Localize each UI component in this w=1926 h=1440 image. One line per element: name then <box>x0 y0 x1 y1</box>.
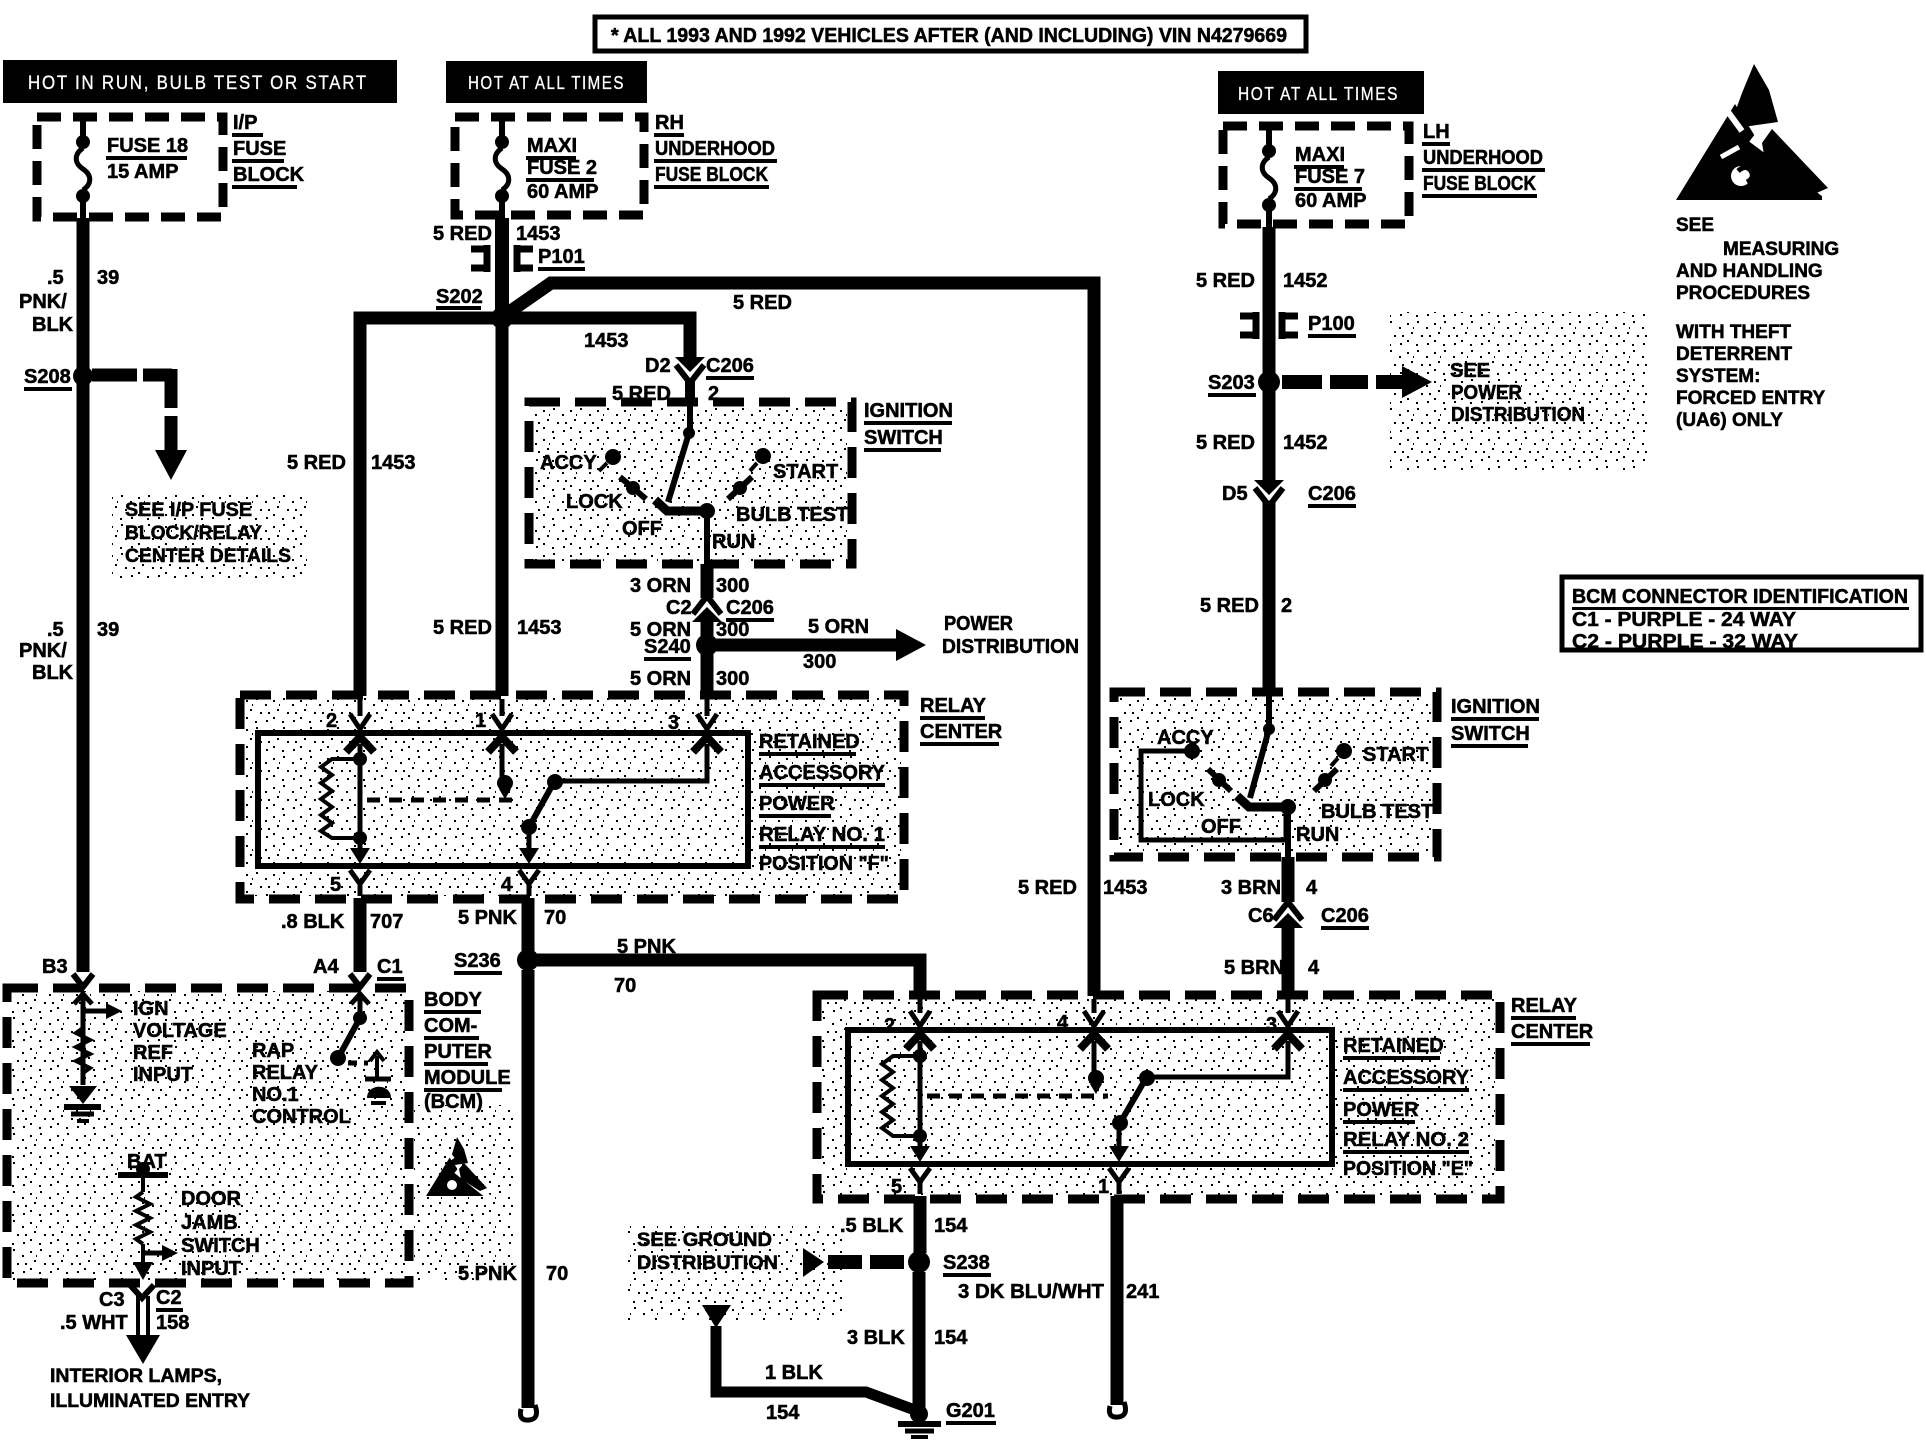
wire: S202 left branch to relay 1 pin 2 (5 RED 1453) <box>360 318 502 696</box>
svg-text:S238: S238 <box>943 1252 990 1274</box>
wire: S203 dashed arrow to power distribution <box>1282 366 1432 398</box>
label: .5 PNK/BLK 39 (upper) <box>19 267 119 336</box>
svg-text:5 ORN: 5 ORN <box>808 616 869 638</box>
svg-text:RELAY: RELAY <box>252 1062 319 1084</box>
resistor (IGN voltage ref) <box>76 1028 90 1073</box>
svg-text:300: 300 <box>716 575 749 597</box>
diode to ground (BCM ign ref) <box>64 1086 101 1121</box>
note: POWER DISTRIBUTION (at S240) <box>942 613 1079 658</box>
svg-text:AND HANDLING: AND HANDLING <box>1676 261 1823 282</box>
svg-text:300: 300 <box>716 619 749 641</box>
label: C206 (at C2) <box>726 597 774 622</box>
svg-text:C206: C206 <box>706 355 754 377</box>
svg-text:CENTER: CENTER <box>920 721 1003 743</box>
svg-text:C1 - PURPLE - 24 WAY: C1 - PURPLE - 24 WAY <box>1572 609 1797 631</box>
label: I/P FUSE BLOCK <box>232 112 305 189</box>
svg-text:BLOCK/RELAY: BLOCK/RELAY <box>125 523 262 544</box>
label: RELAY CENTER (1) <box>920 695 1003 746</box>
connector C3/C2 below BCM <box>126 1285 160 1364</box>
pin 4 terminal (relay 1) <box>519 848 539 896</box>
svg-text:RAP: RAP <box>252 1040 294 1062</box>
label: P100 <box>1308 313 1356 338</box>
svg-text:BLK: BLK <box>32 662 74 684</box>
connector C2 / C206 <box>692 596 722 622</box>
terminal A4 into BCM <box>350 974 370 1004</box>
svg-text:C3: C3 <box>99 1289 125 1311</box>
svg-text:5 ORN: 5 ORN <box>630 668 691 690</box>
wire: S238 down to G201 (3 BLK 154) <box>913 1272 926 1408</box>
svg-text:5 RED: 5 RED <box>433 223 492 245</box>
svg-text:IGN: IGN <box>133 998 169 1020</box>
svg-text:MODULE: MODULE <box>424 1067 511 1089</box>
svg-text:RELAY: RELAY <box>920 695 987 717</box>
svg-text:C206: C206 <box>726 597 774 619</box>
svg-text:CENTER DETAILS: CENTER DETAILS <box>125 546 291 567</box>
svg-text:I/P: I/P <box>233 112 257 134</box>
svg-text:A4: A4 <box>313 956 339 978</box>
LH underhood fuse block dashed box <box>1223 126 1409 224</box>
wire: ignition 1 movable arm <box>668 433 689 502</box>
stipple noise: right of BCM <box>414 1105 514 1280</box>
wire: entry into ignition 2 <box>1266 692 1272 726</box>
wire: BAT down <box>141 1175 145 1192</box>
splice S208 <box>73 366 93 386</box>
label: C206 (at D2) <box>706 355 754 380</box>
label: 3 DK BLU/WHT 241 <box>958 1281 1159 1303</box>
ignition switch 1 dashed box <box>529 402 852 564</box>
mechanical link (dashed) relay 2 <box>927 1094 1108 1099</box>
svg-text:.5: .5 <box>47 619 64 641</box>
pin 1 terminal (relay 1) <box>488 699 516 752</box>
ignition switch 2 dashed box <box>1114 692 1437 857</box>
connector C6 / C206 <box>1273 902 1303 928</box>
svg-text:.5: .5 <box>47 267 64 289</box>
svg-text:PUTER: PUTER <box>424 1041 492 1063</box>
label: IGN VOLTAGE REF INPUT <box>133 998 227 1086</box>
svg-text:B3: B3 <box>42 956 68 978</box>
mechanical link (dashed) relay 1 <box>367 798 516 803</box>
lever: BULB TEST position (2) <box>1314 769 1337 791</box>
label: 5 RED 1453 (left vertical wire) <box>287 452 416 474</box>
note: SEE I/P FUSE BLOCK/RELAY CENTER DETAILS <box>125 500 291 567</box>
label: DOOR JAMB SWITCH INPUT <box>181 1188 260 1280</box>
label: C206 (at C6) <box>1321 905 1369 930</box>
label: RETAINED ACCESSORY POWER RELAY NO. 2 POSITION E <box>1343 1035 1473 1180</box>
svg-text:FORCED ENTRY: FORCED ENTRY <box>1676 388 1826 409</box>
svg-text:LH: LH <box>1423 121 1450 143</box>
lever: BULB TEST position <box>728 477 752 499</box>
label: S240 <box>644 636 691 661</box>
relay 1 coil <box>321 744 367 845</box>
svg-text:FUSE 7: FUSE 7 <box>1295 166 1365 188</box>
wire: ignition 2 output down <box>1285 807 1291 857</box>
label: RELAY CENTER (2) <box>1511 995 1594 1046</box>
label: C1 <box>377 956 404 981</box>
svg-text:BULB TEST: BULB TEST <box>736 504 848 526</box>
label: .5 WHT 158 <box>60 1312 189 1334</box>
maxi fuse 2 symbol <box>495 114 509 219</box>
svg-text:1: 1 <box>475 710 486 732</box>
wire: A4 input inside BCM <box>358 998 363 1013</box>
stipple noise: see i/p fuse note area <box>112 492 307 582</box>
ground G201 <box>898 1405 941 1437</box>
label: 5 RED 1453 (center vertical wire) <box>433 617 562 639</box>
connector D5 / C206 <box>1254 480 1284 506</box>
label: S203 <box>1208 372 1256 397</box>
splice S238 <box>908 1251 930 1273</box>
lever: LOCK position (2) <box>1208 769 1231 791</box>
svg-text:2: 2 <box>884 1015 895 1037</box>
svg-text:5 PNK: 5 PNK <box>617 936 676 958</box>
svg-text:LOCK: LOCK <box>566 491 623 513</box>
svg-text:39: 39 <box>97 267 119 289</box>
wire end curl (5 PNK) <box>520 1405 536 1420</box>
note box: ALL 1993 AND 1992 VEHICLES <box>595 17 1306 51</box>
svg-text:OFF: OFF <box>1201 816 1241 838</box>
svg-text:154: 154 <box>934 1327 968 1349</box>
wire: S240 to relay 1 pin 3 <box>701 651 714 696</box>
svg-text:DISTRIBUTION: DISTRIBUTION <box>1451 404 1585 426</box>
wire: S236 branch to relay 2 pin 2 (5 PNK 70) <box>537 960 920 998</box>
svg-text:UNDERHOOD: UNDERHOOD <box>1423 147 1543 169</box>
relay center 1 dashed box <box>240 695 904 899</box>
svg-text:P100: P100 <box>1308 313 1355 335</box>
node: ignition 2 RUN contact <box>1280 799 1296 815</box>
svg-text:5: 5 <box>891 1176 902 1198</box>
note: SEE MEASURING AND HANDLING PROCEDURES <box>1676 215 1839 304</box>
svg-text:ACCY: ACCY <box>1157 727 1214 749</box>
node: ignition 1 ACCY contact <box>599 449 621 471</box>
label: G201 <box>946 1400 996 1425</box>
svg-text:3 ORN: 3 ORN <box>630 575 691 597</box>
svg-text:3 BLK: 3 BLK <box>847 1327 905 1349</box>
svg-text:REF: REF <box>133 1042 173 1064</box>
svg-text:RUN: RUN <box>712 531 755 553</box>
svg-text:NO.1: NO.1 <box>252 1084 299 1106</box>
wire: relay 1 pin 1 to fixed contact <box>500 744 505 778</box>
svg-text:DISTRIBUTION: DISTRIBUTION <box>637 1253 778 1274</box>
svg-text:S236: S236 <box>454 950 501 972</box>
node: ignition 1 RUN contact <box>699 503 715 519</box>
pin 4 terminal (relay 2) <box>1080 999 1108 1049</box>
node: RAP relay control switch top <box>353 1011 367 1025</box>
wire: C6 to relay 2 pin 3 (5 BRN 4) <box>1282 926 1295 998</box>
svg-text:OFF: OFF <box>622 518 662 540</box>
svg-text:SEE: SEE <box>1450 360 1490 382</box>
note: SEE GROUND DISTRIBUTION <box>637 1230 778 1274</box>
svg-text:5 PNK: 5 PNK <box>458 907 517 929</box>
svg-text:5 RED: 5 RED <box>433 617 492 639</box>
svg-text:RUN: RUN <box>1296 824 1339 846</box>
stipple noise: ignition switch 2 interior <box>1117 695 1434 853</box>
ESD warning symbol (large, top right) <box>1676 64 1840 204</box>
label: MAXI FUSE 2 60 AMP <box>526 135 599 203</box>
node: relay 2 arm lower joint <box>1112 1115 1128 1131</box>
wire: ignition 1 output to C2 <box>701 564 714 598</box>
svg-text:JAMB: JAMB <box>181 1212 238 1234</box>
label: .8 BLK 707 <box>281 911 403 933</box>
label: 3 ORN 300 <box>630 575 749 597</box>
svg-text:S202: S202 <box>436 286 483 308</box>
svg-text:INPUT: INPUT <box>181 1258 241 1280</box>
wire: D5 to ignition switch 2 (5 RED 2) <box>1263 501 1276 692</box>
node: ignition 2 feed contact <box>1263 723 1275 735</box>
svg-text:ACCY: ACCY <box>540 452 597 474</box>
wire: S202 diagonal up to long 5 RED feed to relay 2 pin 4 <box>505 283 1094 996</box>
wire: relay 2 arm to pin 1 <box>1117 1123 1122 1146</box>
label: 3 BLK 154 <box>847 1327 968 1349</box>
svg-text:1 BLK: 1 BLK <box>765 1362 823 1384</box>
wire: S202 down branch to relay 1 pin 1 <box>496 318 509 696</box>
svg-text:15 AMP: 15 AMP <box>107 161 179 183</box>
svg-text:POWER: POWER <box>1451 382 1523 404</box>
wire: ignition 1 arm elbow to RUN contact <box>655 500 707 511</box>
svg-text:C206: C206 <box>1308 483 1356 505</box>
svg-text:RETAINED: RETAINED <box>759 731 860 753</box>
wire: C2 to S240 <box>701 620 714 645</box>
pin 3 terminal (relay 1) <box>693 699 721 752</box>
svg-text:4: 4 <box>1308 957 1320 979</box>
wire: 5 RED 1452 from maxi fuse 7 down <box>1263 227 1276 480</box>
wire: ignition 2 arm elbow to RUN contact <box>1237 796 1288 807</box>
pin 2 terminal (relay 2) <box>906 999 934 1049</box>
svg-text:DOOR: DOOR <box>181 1188 242 1210</box>
fuse 18 symbol <box>76 114 90 219</box>
svg-text:BLOCK: BLOCK <box>233 164 305 186</box>
node: ignition 2 START contact <box>1331 743 1352 766</box>
wire: relay 2 pin 1 down 3 DK BLU/WHT 241 <box>1111 1196 1124 1405</box>
svg-text:SWITCH: SWITCH <box>1451 723 1530 745</box>
splice S240 <box>696 634 718 656</box>
label: RH UNDERHOOD FUSE BLOCK <box>654 112 777 189</box>
wire: ignition 2 output to C6 <box>1282 857 1295 902</box>
relay 1 switch arm <box>529 784 553 827</box>
svg-text:5: 5 <box>330 874 341 896</box>
node: ignition 2 ACCY contact <box>1184 743 1200 759</box>
svg-text:WITH THEFT: WITH THEFT <box>1676 322 1791 343</box>
svg-text:ACCESSORY: ACCESSORY <box>1343 1067 1470 1089</box>
BCM dashed box <box>7 988 409 1283</box>
pin 2 terminal (relay 1) <box>346 699 374 752</box>
wire: 5 RED 1453 from maxi fuse 2 to S202 <box>495 218 509 318</box>
svg-text:241: 241 <box>1126 1281 1159 1303</box>
label: IGNITION SWITCH (1) <box>864 400 953 452</box>
label: 5 RED 2 (into ignition switch 1) <box>612 383 719 405</box>
wire: IGN voltage ref branch arrow <box>83 1003 122 1019</box>
wire: relay 1 pin 4 down (5 PNK 70) <box>522 898 535 960</box>
svg-text:2: 2 <box>1281 595 1292 617</box>
wire: below resistor <box>141 1244 145 1262</box>
RAP driver symbol <box>365 1052 391 1103</box>
wire: ignition 2 movable arm <box>1250 729 1269 798</box>
switch arm: RAP relay no.1 control <box>338 1018 360 1058</box>
label: S238 <box>943 1252 991 1277</box>
node: ignition 1 feed contact <box>683 427 695 439</box>
label: 5 PNK 70 (below relay 1) <box>458 907 566 929</box>
svg-text:CENTER: CENTER <box>1511 1021 1594 1043</box>
svg-text:ILLUMINATED ENTRY: ILLUMINATED ENTRY <box>50 1391 250 1412</box>
wire: B3 input inside BCM <box>81 998 86 1085</box>
wire: S240 arrow to power distribution <box>716 629 926 661</box>
svg-text:4: 4 <box>1306 877 1318 899</box>
note: WITH THEFT DETERRENT SYSTEM: FORCED ENTRY (UA6) ONLY <box>1676 322 1826 431</box>
wire: ACCY hook circuit to RUN node <box>1141 751 1286 840</box>
pin 5 terminal (relay 2) <box>910 1143 930 1194</box>
stipple noise: BCM interior <box>10 991 406 1280</box>
svg-text:300: 300 <box>716 668 749 690</box>
stipple noise: relay center 1 interior <box>243 698 901 896</box>
svg-text:S208: S208 <box>24 366 71 388</box>
svg-text:C206: C206 <box>1321 905 1369 927</box>
terminal B3 into BCM <box>73 974 93 1004</box>
note: SEE POWER DISTRIBUTION (at S203) <box>1450 360 1585 426</box>
wire: relay 2 pin 3 to arm pivot <box>1152 1041 1288 1077</box>
wire: S202 right branch to D2 C206 (5 RED 1453) <box>502 318 690 357</box>
svg-text:RELAY NO. 2: RELAY NO. 2 <box>1343 1129 1469 1151</box>
svg-text:5 RED: 5 RED <box>733 292 792 314</box>
relay 2 coil <box>882 1041 927 1143</box>
svg-text:CONTROL: CONTROL <box>252 1106 351 1128</box>
BCM connector identification box <box>1562 577 1921 653</box>
svg-text:5 PNK: 5 PNK <box>458 1263 517 1285</box>
pin 3 terminal (relay 2) <box>1274 999 1302 1049</box>
connector P101 symbol <box>471 245 533 272</box>
svg-text:IGNITION: IGNITION <box>864 400 953 422</box>
wire: relay 2 pin 4 to fixed contact <box>1092 1041 1097 1072</box>
svg-text:SYSTEM:: SYSTEM: <box>1676 366 1760 387</box>
label: .5 PNK/BLK 39 (lower) <box>19 619 119 684</box>
stipple noise: P100 / see power distribution area <box>1390 312 1650 472</box>
svg-text:(BCM): (BCM) <box>424 1091 483 1113</box>
wire: ignition 1 output RUN down <box>704 511 710 564</box>
svg-text:60 AMP: 60 AMP <box>1295 190 1367 212</box>
svg-text:C2: C2 <box>666 597 692 619</box>
svg-text:POWER: POWER <box>1343 1099 1419 1121</box>
wire: D2 to ignition switch 1 contact <box>685 378 695 404</box>
svg-text:SEE: SEE <box>1676 215 1714 236</box>
svg-text:BODY: BODY <box>424 989 482 1011</box>
mechanical link (dashed) RAP driver <box>348 1061 368 1066</box>
label: 5 BRN 4 <box>1224 957 1320 979</box>
label: 5 RED 1452 (below S203) <box>1196 432 1328 454</box>
I/P fuse block dashed box <box>37 117 223 217</box>
label: .5 BLK 154 <box>840 1215 968 1237</box>
svg-text:4: 4 <box>1057 1012 1069 1034</box>
relay 1 inner box <box>258 733 748 866</box>
label: 3 BRN 4 <box>1221 877 1318 899</box>
svg-text:MAXI: MAXI <box>527 135 577 157</box>
wire: S208 branch arrow to I/P fuse block details <box>92 369 187 480</box>
svg-text:5 RED: 5 RED <box>1196 432 1255 454</box>
svg-text:1453: 1453 <box>371 452 416 474</box>
svg-text:.5 BLK: .5 BLK <box>840 1215 904 1237</box>
stipple noise: ignition switch 1 interior <box>532 405 849 561</box>
node: relay 2 arm pivot <box>1139 1070 1155 1086</box>
label: S208 <box>24 366 72 391</box>
svg-text:ACCESSORY: ACCESSORY <box>759 762 886 784</box>
svg-text:2: 2 <box>326 710 337 732</box>
svg-text:154: 154 <box>934 1215 968 1237</box>
svg-text:RETAINED: RETAINED <box>1343 1035 1444 1057</box>
svg-text:FUSE 18: FUSE 18 <box>107 135 188 157</box>
svg-text:1453: 1453 <box>516 223 561 245</box>
relay 2 switch arm <box>1120 1080 1145 1123</box>
relay 2 inner box <box>848 1030 1332 1164</box>
svg-text:IGNITION: IGNITION <box>1451 696 1540 718</box>
node: RAP switch arm end <box>330 1050 346 1066</box>
label: C206 (at D5) <box>1308 483 1356 508</box>
svg-text:INTERIOR LAMPS,: INTERIOR LAMPS, <box>50 1366 222 1387</box>
node: relay 1 arm pivot <box>547 774 563 790</box>
svg-text:LOCK: LOCK <box>1148 789 1205 811</box>
svg-text:POWER: POWER <box>759 793 835 815</box>
node: ignition 1 START contact <box>750 448 771 471</box>
svg-text:C6: C6 <box>1248 905 1274 927</box>
svg-text:70: 70 <box>614 975 636 997</box>
svg-text:PNK/: PNK/ <box>19 291 67 313</box>
svg-text:MAXI: MAXI <box>1295 144 1345 166</box>
svg-text:60 AMP: 60 AMP <box>527 181 599 203</box>
label: 5 RED 1452 (above P100) <box>1196 270 1328 292</box>
label: BODY COMPUTER MODULE (BCM) <box>424 989 511 1113</box>
banner: HOT AT ALL TIMES (right) <box>1218 71 1424 114</box>
pin 1 terminal (relay 2) <box>1109 1146 1129 1194</box>
svg-text:START: START <box>773 461 838 483</box>
svg-text:5 RED: 5 RED <box>1196 270 1255 292</box>
svg-text:3 DK BLU/WHT: 3 DK BLU/WHT <box>958 1281 1104 1303</box>
svg-text:* ALL 1993 AND 1992 VEHICLES A: * ALL 1993 AND 1992 VEHICLES AFTER (AND … <box>611 25 1287 47</box>
svg-text:MEASURING: MEASURING <box>1723 239 1839 260</box>
svg-text:70: 70 <box>546 1263 568 1285</box>
svg-text:3 BRN: 3 BRN <box>1221 877 1281 899</box>
svg-text:BLK: BLK <box>32 314 74 336</box>
svg-text:.8 BLK: .8 BLK <box>281 911 345 933</box>
svg-text:PROCEDURES: PROCEDURES <box>1676 283 1810 304</box>
label: RETAINED ACCESSORY POWER RELAY NO. 1 POSITION F <box>759 731 889 875</box>
svg-text:3: 3 <box>668 712 679 734</box>
svg-text:COM-: COM- <box>424 1015 477 1037</box>
svg-text:RELAY NO. 1: RELAY NO. 1 <box>759 824 885 846</box>
svg-text:154: 154 <box>766 1402 800 1424</box>
svg-text:FUSE 2: FUSE 2 <box>527 157 597 179</box>
svg-text:UNDERHOOD: UNDERHOOD <box>655 138 775 160</box>
svg-text:C1: C1 <box>377 956 403 978</box>
svg-text:3: 3 <box>1266 1014 1277 1036</box>
wire: .5 PNK/BLK 39 from fuse 18 down to BCM B3 <box>77 218 90 972</box>
svg-text:INPUT: INPUT <box>133 1064 193 1086</box>
svg-text:PNK/: PNK/ <box>19 640 67 662</box>
label: LH UNDERHOOD FUSE BLOCK <box>1422 121 1545 198</box>
svg-text:P101: P101 <box>538 246 585 268</box>
svg-text:FUSE BLOCK: FUSE BLOCK <box>1423 173 1536 195</box>
ESD symbol (small, at BCM) <box>426 1137 490 1198</box>
svg-text:39: 39 <box>97 619 119 641</box>
svg-text:1453: 1453 <box>517 617 562 639</box>
label: P101 <box>538 246 585 271</box>
label: 5 ORN 300 (below S240) <box>630 668 749 690</box>
svg-text:RELAY: RELAY <box>1511 995 1578 1017</box>
svg-text:70: 70 <box>544 907 566 929</box>
svg-text:C2: C2 <box>156 1287 182 1309</box>
svg-text:300: 300 <box>803 651 836 673</box>
svg-text:5 RED: 5 RED <box>287 452 346 474</box>
svg-text:1: 1 <box>1098 1176 1109 1198</box>
svg-text:C2 - PURPLE - 32 WAY: C2 - PURPLE - 32 WAY <box>1572 631 1799 653</box>
svg-text:BULB TEST: BULB TEST <box>1321 801 1433 823</box>
stipple noise: see ground distribution area <box>628 1226 843 1321</box>
svg-text:D5: D5 <box>1222 483 1248 505</box>
label: FUSE 18 15 AMP <box>106 135 188 183</box>
